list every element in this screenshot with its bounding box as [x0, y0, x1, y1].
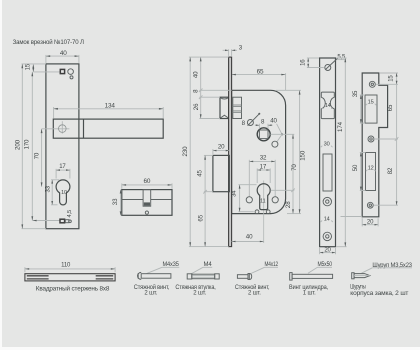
svg-text:Замок врезной №107-70 Л: Замок врезной №107-70 Л — [13, 38, 84, 46]
bottom screw hole — [323, 232, 331, 240]
svg-text:70: 70 — [291, 164, 298, 171]
svg-text:14: 14 — [325, 103, 331, 109]
dim 16 (hole offset) — [300, 58, 323, 68]
svg-text:17: 17 — [260, 163, 267, 170]
svg-text:16: 16 — [300, 59, 306, 66]
svg-text:Шурупы: Шурупы — [350, 285, 365, 291]
strike bottom screw hole — [367, 202, 373, 208]
svg-text:14: 14 — [324, 216, 330, 222]
svg-text:10: 10 — [61, 190, 67, 196]
cylinder cam slot — [143, 190, 151, 207]
svg-text:15: 15 — [389, 75, 395, 82]
dim 170 — [23, 72, 33, 221]
svg-text:134: 134 — [105, 103, 116, 110]
deadbolt cutout — [323, 154, 332, 191]
cylinder body — [122, 190, 172, 216]
svg-text:45: 45 — [197, 170, 204, 177]
caption: Стяжной винт, 2 шт. — [134, 284, 170, 297]
dim 150 (case height, right) — [276, 90, 306, 213]
svg-text:200: 200 — [14, 139, 21, 150]
svg-text:174: 174 — [337, 121, 344, 132]
caption: Винт цилиндра, 1 шт. — [289, 285, 328, 297]
svg-text:170: 170 — [23, 139, 30, 150]
dim 82 (hole spacing, right) — [374, 139, 398, 205]
svg-text:корпуса замка, 2 шт: корпуса замка, 2 шт — [350, 291, 408, 297]
dims 45 / 65 (deadbolt, lower) — [197, 155, 229, 246]
svg-text:65: 65 — [257, 68, 264, 75]
bottom square hole — [60, 219, 69, 223]
svg-text:230: 230 — [182, 146, 189, 157]
wood screw M3,5x23 — [352, 273, 370, 279]
svg-text:35: 35 — [353, 90, 359, 97]
svg-text:70: 70 — [33, 152, 40, 159]
svg-text:2 шт.: 2 шт. — [144, 291, 157, 297]
strike latch cutout — [365, 95, 377, 123]
svg-text:34: 34 — [232, 190, 238, 197]
svg-text:65: 65 — [197, 214, 204, 221]
svg-text:110: 110 — [61, 263, 71, 269]
svg-text:Квадратный стержень 8х8: Квадратный стержень 8х8 — [36, 285, 110, 292]
svg-text:65: 65 — [388, 104, 394, 111]
dim 3 (faceplate thickness) — [223, 44, 243, 56]
top screw hole with leader 5,5 — [325, 55, 346, 71]
bottom square hole leader — [33, 220, 60, 222]
svg-text:20: 20 — [218, 143, 225, 150]
svg-text:15: 15 — [368, 100, 374, 106]
dim 34 (cylinder cutout height) — [232, 185, 257, 212]
tie sleeve M4 — [187, 274, 219, 279]
dim 70 (handle to cylinder) — [33, 129, 42, 187]
small circle below top detail — [70, 76, 73, 79]
text 11 in cylinder slot — [260, 199, 265, 205]
svg-text:2 шт.: 2 шт. — [193, 291, 206, 297]
svg-text:4,5: 4,5 — [67, 210, 73, 218]
faceplate outline — [320, 58, 336, 247]
screw hole (upper of lower pair) — [323, 197, 331, 205]
dim 174 (faceplate height) — [336, 58, 346, 247]
cylinder fixing hole — [145, 211, 148, 214]
deadbolt — [213, 155, 229, 191]
svg-text:33: 33 — [112, 198, 119, 205]
caption: Шурупы корпуса замка, 2 шт — [350, 285, 408, 297]
keyhole (euro profile) — [56, 180, 70, 205]
dim 15 (top offset) — [26, 63, 35, 72]
svg-text:20: 20 — [367, 219, 374, 225]
svg-text:40: 40 — [246, 234, 253, 241]
top circle detail — [68, 69, 74, 75]
dim 230 (faceplate height) — [182, 57, 204, 247]
dim 65 (hole spacing, right) — [388, 84, 398, 141]
dim 35 (latch cutout, left) — [353, 90, 365, 123]
dim 134 (handle length) — [54, 103, 164, 119]
spindle square 8x8 with boss circle — [257, 128, 270, 141]
svg-text:26: 26 — [193, 103, 200, 110]
top square hole — [60, 69, 64, 73]
svg-text:20: 20 — [324, 247, 331, 253]
top detail leader — [34, 71, 60, 73]
svg-text:150: 150 — [299, 150, 306, 161]
dim 40 (plate width, top) — [46, 50, 79, 63]
dim 8 (square width) — [255, 119, 273, 129]
dim 65 (case width, top) — [232, 68, 286, 90]
dim 110 (square rod) — [25, 263, 115, 273]
svg-text:40: 40 — [270, 117, 277, 124]
dim 33 (keyhole height) — [46, 180, 60, 205]
strike deadbolt cutout — [366, 153, 376, 191]
svg-text:2 шт.: 2 шт. — [248, 291, 261, 297]
euro cylinder cutout — [257, 184, 270, 210]
label 14 (hole spacing) — [321, 216, 333, 222]
svg-text:50: 50 — [353, 164, 359, 171]
hole d8 upper-left — [247, 113, 260, 126]
caption: Стяжная втулка, 2 шт. — [175, 285, 216, 297]
label 8 for hole — [242, 120, 246, 127]
dim 40 (cylinder backset, bottom) — [232, 234, 264, 243]
dim 20 (faceplate width, bottom) — [320, 247, 336, 254]
svg-text:11: 11 — [260, 199, 265, 205]
plate outline — [46, 64, 79, 229]
strike plate outline with lip — [362, 73, 387, 217]
svg-text:32: 32 — [260, 155, 267, 162]
cylinder side screw holes — [246, 197, 278, 203]
tie screw M4x12 — [237, 274, 251, 280]
dim 15 (top, right) — [376, 73, 398, 84]
svg-text:82: 82 — [388, 167, 394, 174]
text 4,5 — [67, 210, 73, 218]
dim 60 (cylinder length) — [122, 178, 172, 189]
svg-text:28: 28 — [285, 201, 292, 208]
bottom tiny circle — [69, 220, 72, 223]
dim 33 (cylinder height) — [112, 190, 121, 216]
dim 32 (cylinder screw spacing) — [249, 155, 275, 197]
text 10 inside keyhole — [61, 190, 67, 196]
svg-text:60: 60 — [143, 178, 150, 185]
faceplate strip (section) — [229, 57, 232, 247]
lock case outline — [232, 90, 286, 213]
dim 50 (deadbolt cutout, left) — [353, 153, 366, 191]
title: Замок врезной №107-70 Л — [13, 38, 84, 46]
dim 20 (deadbolt throw) — [213, 143, 229, 154]
label М4 — [191, 262, 212, 274]
svg-text:1 шт.: 1 шт. — [303, 291, 316, 297]
dims 70 / 28 (right) — [270, 134, 298, 213]
svg-text:40: 40 — [60, 50, 67, 57]
hole d8 lower-right — [272, 141, 278, 147]
cylinder screw M5x50 — [290, 273, 333, 281]
svg-text:17: 17 — [59, 164, 66, 170]
latch follower block inside case — [233, 97, 242, 118]
tie screw M4x35 — [137, 272, 170, 279]
square rod 8x8 — [25, 274, 115, 281]
label 40 with leader to lower hole — [270, 117, 283, 141]
latch bolt (protruding) — [220, 97, 229, 118]
svg-text:12: 12 — [368, 166, 374, 172]
label М5х50 — [308, 262, 333, 273]
handle hub crosshair — [42, 121, 70, 133]
label М4х12 — [251, 262, 278, 273]
latch cutout with bolt (bowtie) — [321, 92, 334, 119]
left chained dims 40 / 8 / 26 — [192, 57, 231, 118]
label М4х35 — [147, 262, 180, 273]
cylinder centerline — [263, 181, 265, 244]
strike top screw hole — [369, 81, 375, 87]
label Шуруп М3,5х23 — [362, 263, 413, 273]
stray extension at strike bottom — [341, 216, 363, 218]
caption: Квадратный стержень 8х8 — [36, 285, 110, 292]
strike middle screw hole — [368, 136, 374, 142]
dim 20 (strike width, bottom) — [362, 218, 378, 226]
caption: Стяжной винт, 2 шт. — [235, 284, 270, 297]
dim 200 (plate height) — [14, 64, 46, 229]
label 30 (deadbolt cutout) — [321, 142, 333, 148]
svg-text:30: 30 — [324, 142, 330, 148]
svg-text:40: 40 — [192, 71, 199, 78]
svg-text:33: 33 — [46, 185, 52, 192]
dim 17 (cylinder circle) — [257, 163, 270, 183]
handle lever — [53, 119, 163, 138]
dim 17 (keyhole circle) — [56, 164, 70, 179]
tiny pin holes at slot bottom — [255, 210, 270, 214]
